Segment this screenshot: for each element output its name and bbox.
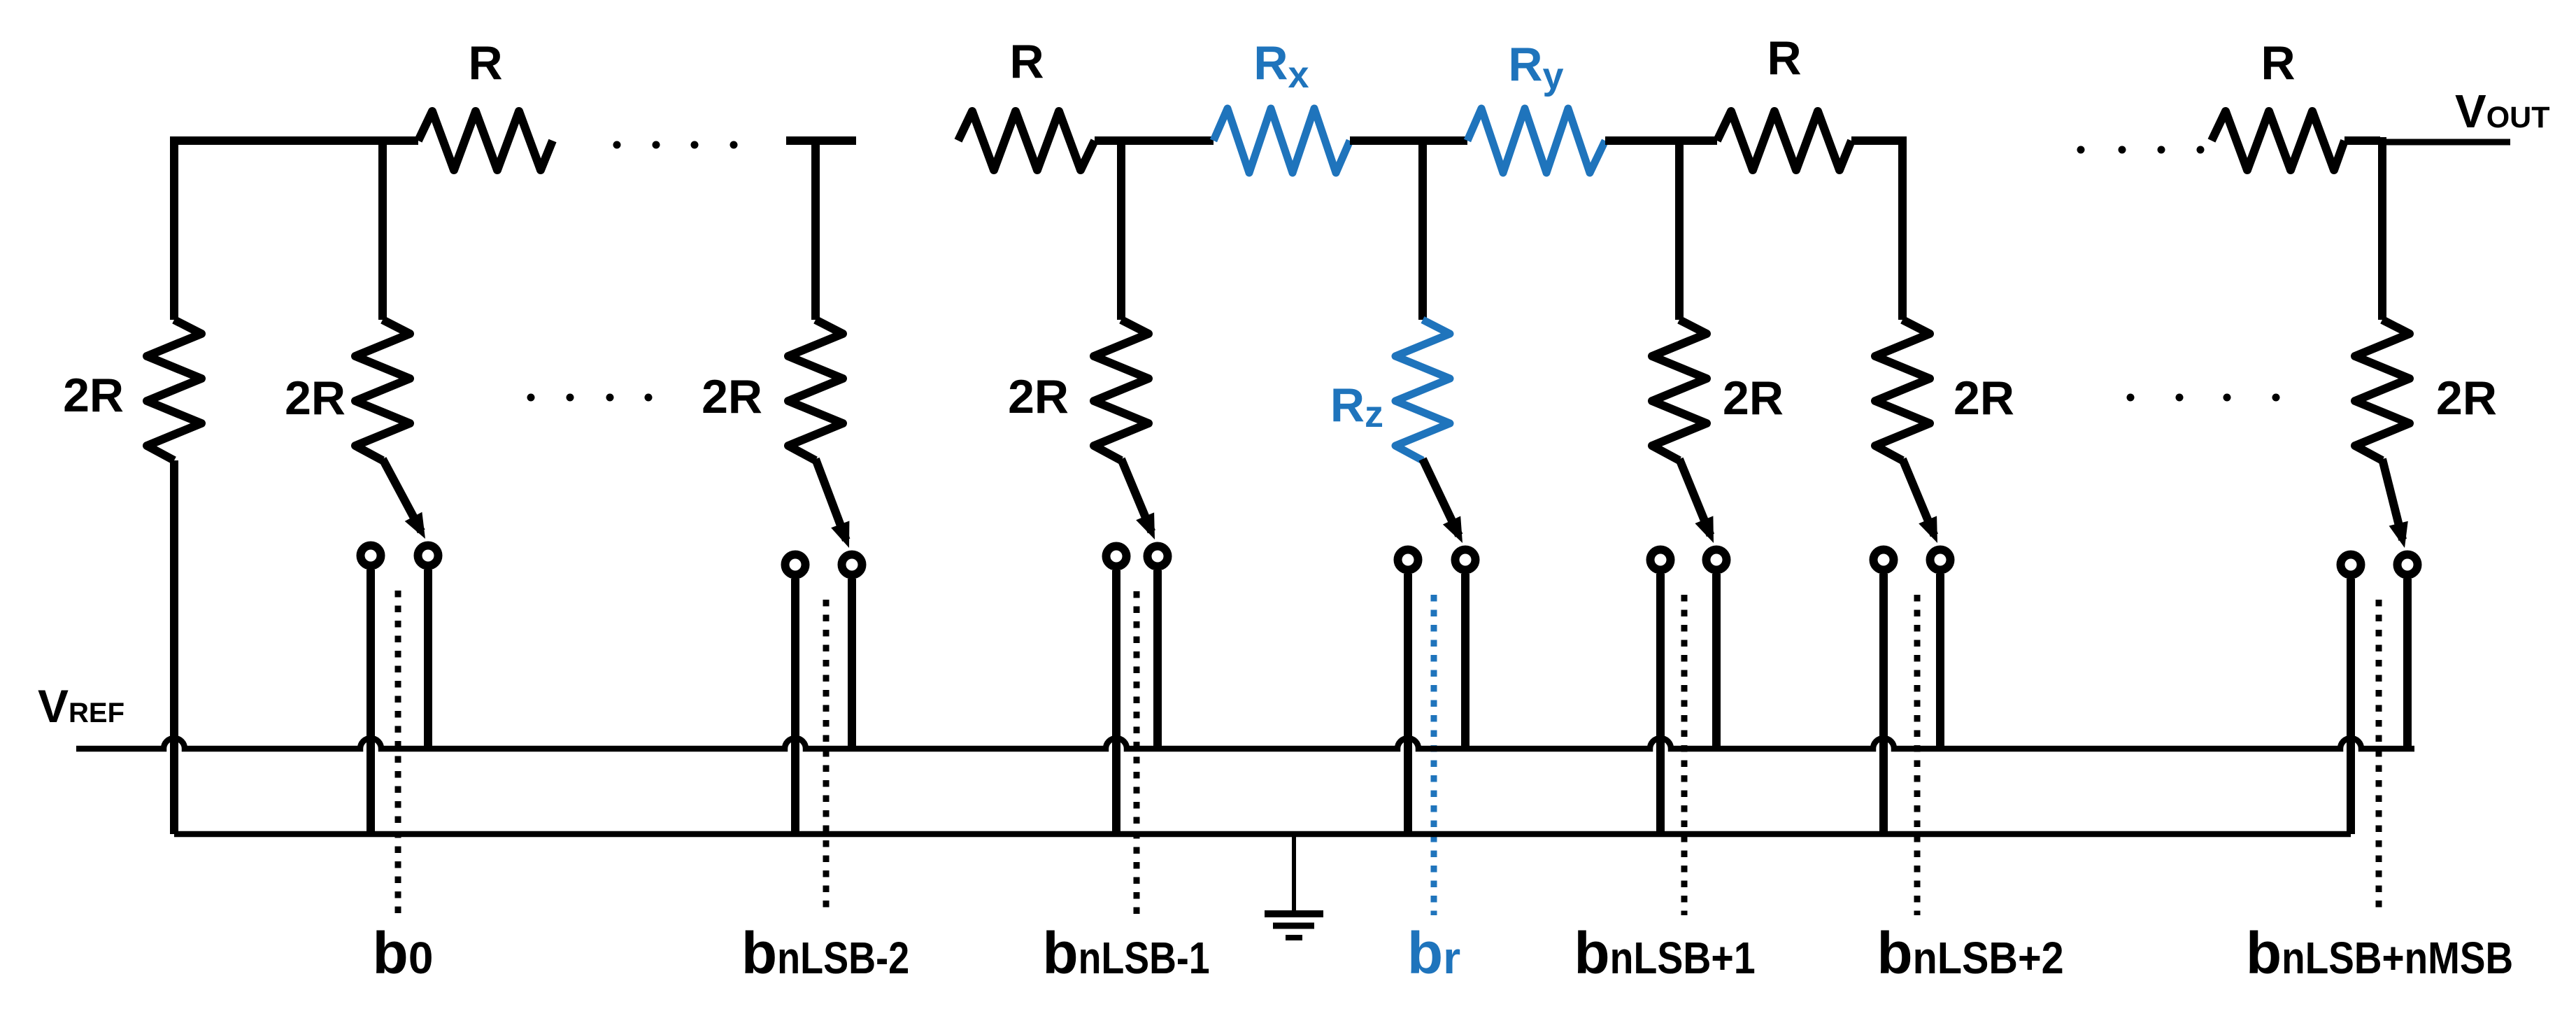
svg-text:2R: 2R bbox=[702, 370, 762, 423]
svg-text:2R: 2R bbox=[1954, 372, 2014, 425]
svg-text:R: R bbox=[1767, 31, 1801, 85]
svg-text:2R: 2R bbox=[285, 372, 346, 425]
svg-text:2R: 2R bbox=[1723, 372, 1784, 425]
svg-text:2R: 2R bbox=[2436, 372, 2497, 425]
svg-text:R: R bbox=[1009, 35, 1044, 88]
svg-text:R: R bbox=[468, 36, 502, 90]
svg-text:R: R bbox=[2261, 36, 2295, 90]
svg-text:2R: 2R bbox=[63, 369, 124, 422]
svg-text:2R: 2R bbox=[1008, 370, 1069, 423]
